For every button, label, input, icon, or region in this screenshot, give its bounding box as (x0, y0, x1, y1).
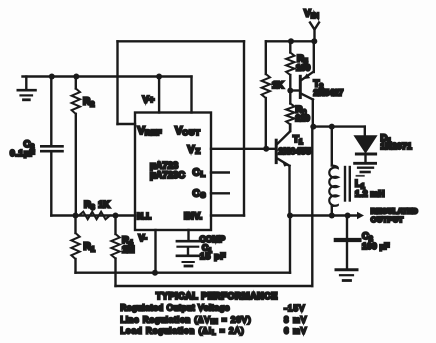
node: R5/R6/T2-base junction (287, 88, 293, 94)
resistor R2 (72, 77, 80, 216)
svg-text:6 mV: 6 mV (284, 326, 307, 335)
capacitor C1 with COMP pin (177, 230, 199, 266)
svg-text:1.2 mH: 1.2 mH (355, 188, 385, 198)
svg-text:V+: V+ (143, 95, 155, 106)
resistor 1K (T1 base) (262, 41, 270, 149)
svg-text:1K: 1K (272, 80, 284, 90)
svg-text:15 pF: 15 pF (200, 251, 226, 261)
svg-text:VREF: VREF (138, 125, 163, 137)
svg-text:T1: T1 (293, 134, 303, 146)
node: C3 top junction (49, 74, 55, 80)
svg-text:VZ: VZ (188, 144, 202, 156)
svg-text:V-: V- (139, 233, 148, 243)
node: R3/R4/N.I. junction (113, 213, 119, 219)
svg-text:100 µF: 100 µF (362, 241, 390, 251)
transistor T2 (290, 41, 314, 126)
output arrow (357, 212, 364, 219)
ground (18, 77, 36, 100)
node: VIN riser junction (311, 38, 317, 44)
wire: VOUT lead down from rail (190, 77, 192, 113)
svg-text:VOUT: VOUT (175, 125, 201, 137)
svg-text:2N6455: 2N6455 (279, 146, 312, 156)
wire: bottom wire A (V- net) (76, 272, 291, 274)
node: R5 top junction (288, 38, 294, 44)
resistor R5 (286, 41, 294, 90)
diode D1 (355, 127, 377, 172)
svg-text:R31K: R31K (84, 200, 110, 212)
wire: VIN rail (266, 40, 316, 42)
svg-text:INV.: INV. (184, 211, 203, 221)
wire: V- pin lead (154, 230, 156, 273)
node: T2 emitter / feedback junction (310, 124, 316, 130)
wire: VREF pin stub (118, 123, 136, 125)
artifact dash above L1 (357, 175, 364, 177)
node: V- junction (152, 270, 158, 276)
svg-text:0.1µF: 0.1µF (10, 148, 35, 158)
wire: bottom wire B (R4 feedback net) (116, 285, 313, 287)
inductor L1 (329, 127, 350, 216)
node: T1 emitter output junction (287, 213, 293, 219)
svg-text:1M: 1M (122, 244, 135, 254)
svg-text:1N2071: 1N2071 (381, 141, 413, 151)
node: 1K bottom junction (263, 146, 269, 152)
svg-text:TYPICAL PERFORMANCE: TYPICAL PERFORMANCE (156, 291, 278, 301)
node: L1 bottom junction (329, 213, 335, 219)
wire: INV pin wire (211, 214, 244, 216)
wire: CL pin stub (211, 171, 229, 173)
capacitor C2 (336, 216, 360, 281)
op-amp IC uA723 box (135, 113, 211, 231)
svg-text:OUTPUT: OUTPUT (371, 215, 404, 224)
svg-text:N.I.: N.I. (137, 211, 152, 221)
terminal VIN (310, 23, 319, 42)
svg-text:Load Regulation (ΔIL = 2A): Load Regulation (ΔIL = 2A) (121, 326, 245, 336)
wire: V+ lead down from rail (158, 77, 160, 113)
wire: CS pin stub (211, 192, 229, 194)
svg-text:-15V: -15V (284, 304, 306, 313)
wire: left riser x=117.5 down to VREF stub (116, 41, 118, 124)
svg-text:8 mV: 8 mV (284, 315, 307, 324)
wire: N.I. input wire (51, 214, 135, 216)
wire: VZ wire to T1 base (211, 148, 275, 150)
svg-text:CS: CS (193, 189, 207, 200)
svg-text:VIN: VIN (304, 9, 320, 21)
capacitor C3 (41, 77, 62, 216)
wire: input net rail (y=41) (118, 40, 245, 42)
ground rail top-left (23, 75, 192, 77)
wire: INV riser x=244 (243, 41, 245, 215)
svg-text:R1: R1 (84, 242, 95, 254)
wire: switch node wire to D1 (313, 125, 365, 127)
svg-text:Line Regulation (ΔVIN = 20V): Line Regulation (ΔVIN = 20V) (121, 315, 252, 325)
resistor R3 (79, 212, 110, 220)
resistor R1 (71, 216, 79, 273)
svg-text:220: 220 (296, 113, 310, 123)
resistor R6 (286, 91, 294, 132)
node: R2 top junction (73, 74, 79, 80)
transistor T1 (276, 125, 290, 216)
node: R1/R2/R3 junction (73, 213, 79, 219)
svg-text:µA723C: µA723C (150, 170, 185, 181)
svg-text:2N5427: 2N5427 (314, 88, 344, 98)
svg-text:100: 100 (296, 63, 310, 73)
wire: riser from wire A up to output node (289, 216, 291, 273)
svg-text:CL: CL (193, 168, 206, 179)
node: L1 top junction (329, 124, 335, 130)
resistor R4 (111, 216, 119, 287)
node: C2 top junction (345, 213, 351, 219)
svg-text:Regulated Output Voltage: Regulated Output Voltage (121, 303, 231, 312)
wire: regulated output wire (290, 214, 356, 216)
svg-text:R2: R2 (83, 96, 94, 108)
node: V+ junction (156, 74, 162, 80)
wire: feedback riser x=312.3 (311, 127, 313, 286)
